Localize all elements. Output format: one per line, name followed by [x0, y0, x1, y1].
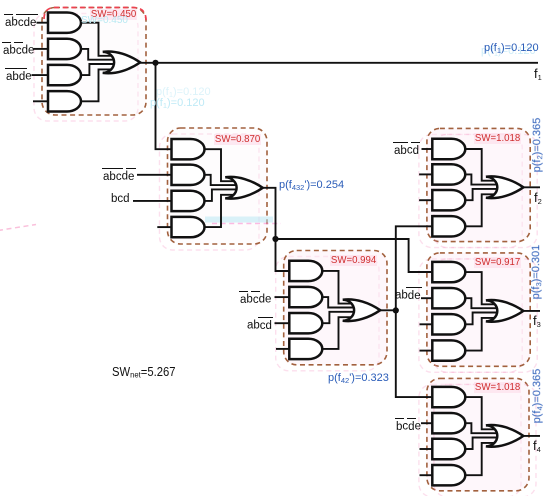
wire input stub to C4G3: [419, 199, 432, 201]
ghost artifact: cyan p(f1)=0.120 upper: [156, 87, 211, 99]
value label minterm b'cd'e (C6 G2 input): [396, 418, 421, 433]
wire C3G1 output to OR top input: [322, 271, 351, 304]
value label p(f3)=0.301 (vertical): [531, 244, 543, 299]
value label minterm bcd (C2 G3 input): [111, 193, 130, 205]
AND gate C1G3: [48, 65, 81, 85]
ghost artifact: stray pink dashes lower-left: [0, 225, 36, 231]
value label minterm a'b'cd' (C4 G1 input): [394, 142, 419, 157]
value label minterm a'bc'de (C1 G2 input): [3, 42, 34, 57]
cluster box SW=0.917 (f3 logic): [427, 253, 530, 366]
AND gate C6G4: [432, 465, 465, 485]
wire C4G2 output to OR upper-middle input: [465, 174, 497, 184]
wire C3G3 output to OR lower-middle input: [322, 312, 353, 323]
wire f2 output: [523, 186, 540, 188]
value label minterm a'b'd'e (C1 G3 input): [6, 68, 32, 83]
wire f3 output: [523, 310, 540, 312]
value label minterm abd'e' (C5 G2 input): [395, 287, 421, 302]
ghost artifact: red dashed top edge of SW=0.450 box: [44, 8, 146, 21]
AND gate C5G3: [432, 314, 465, 334]
wire C1G4 output to OR bottom input: [81, 69, 112, 101]
wire C1G2 output to OR upper-middle input: [81, 49, 114, 60]
AND gate C5G2: [432, 288, 465, 308]
wire input stub to C4G1: [422, 148, 433, 150]
wire C2G2 output to OR upper-middle input: [205, 175, 237, 185]
node f432 junction: [272, 236, 278, 242]
AND gate C1G4: [48, 91, 81, 111]
AND gate C2G3: [172, 191, 205, 211]
ghost artifact: pink halo right of f4 box: [434, 384, 536, 496]
wire C2G3 output to OR lower-middle input: [205, 189, 237, 201]
wire C2G1 output to OR top input: [205, 149, 235, 181]
ghost artifact: pink offset copy of cluster box SW=1.018 (f2 logic): [419, 134, 522, 247]
node f42 junction: [393, 307, 399, 313]
wire C5G3 output to OR lower-middle input: [465, 313, 497, 325]
wire C6G1 output to OR top input: [465, 397, 495, 429]
AND gate C6G2: [432, 413, 465, 433]
value label p(f42')=0.323: [328, 373, 389, 385]
ghost artifact: pale copy of p(f1)=0.120: [481, 46, 536, 58]
AND gate C4G2: [432, 164, 465, 184]
ghost artifact: pink offset copy of cluster box SW=0.870: [160, 134, 260, 250]
cluster box SW=0.994: [284, 251, 387, 365]
ghost artifact: pale cyan band inside SW=0.870 box: [205, 217, 273, 223]
wire C3G2 output to OR upper-middle input: [322, 297, 353, 307]
wire input stub to C1G4: [33, 100, 48, 102]
AND gate C1G1: [48, 13, 81, 33]
value label p(f432')=0.254: [279, 180, 344, 192]
ghost artifact: magenta dashed segment inside SW=0.870 box: [212, 223, 281, 225]
wire f4 output: [523, 435, 540, 437]
AND gate C4G4: [432, 216, 465, 236]
wire input stub to C1G3: [32, 74, 49, 76]
node label f1: [534, 67, 542, 81]
ghost artifact: pink halo right of f2 box: [434, 134, 537, 247]
wire C6G3 output to OR lower-middle input: [465, 438, 497, 450]
wire C5G2 output to OR upper-middle input: [465, 298, 497, 308]
value label minterm abc'd' (C3 G3 input): [247, 317, 272, 332]
node label f3: [533, 314, 541, 328]
cluster box SW=0.450 (f1 logic): [42, 8, 146, 116]
value label minterm a'b'c'de' (C2 G2 input): [103, 168, 134, 183]
OR gate C6OR: [486, 425, 524, 447]
ghost artifact: pink offset copy of cluster box SW=1.018 (f4 logic): [419, 384, 521, 496]
cluster box SW=0.870: [168, 128, 268, 244]
value label SW=0.994: [330, 255, 377, 266]
wire C4G4 output to OR bottom input: [465, 194, 495, 226]
OR gate C5OR: [486, 300, 524, 322]
AND gate C2G2: [172, 165, 205, 185]
value label SWnet=5.267: [112, 366, 176, 379]
AND gate C2G4: [172, 217, 205, 237]
value label SW=1.018 (f4): [474, 382, 521, 393]
OR gate C2OR: [225, 177, 263, 199]
ghost artifact: pink offset copy of cluster box SW=0.994: [276, 257, 379, 371]
wire input stub to C3G3: [275, 322, 290, 324]
wire input stub to C5G4: [420, 350, 433, 352]
wire C1G1 output to OR top input: [81, 23, 112, 56]
ghost artifact: pink halo right of f3 box: [434, 259, 537, 372]
node label f2: [534, 191, 542, 205]
ghost artifact: cyan p(f1)=0.120 lower: [150, 98, 205, 110]
AND gate C3G1: [289, 261, 322, 281]
wire input stub to C1G1: [37, 22, 49, 24]
wire f1 net: OR C1 output to right edge: [140, 62, 538, 64]
wire C4G1 output to OR top input: [465, 149, 495, 181]
AND gate C3G3: [289, 313, 322, 333]
ghost artifact: pink offset copy of cluster box SW=0.450 (f1 logic): [34, 14, 138, 122]
AND gate C1G2: [48, 39, 81, 59]
wire C6G4 output to OR bottom input: [465, 443, 495, 475]
wire input stub to C5G2: [421, 297, 432, 299]
value label SW=1.018 (f2): [474, 133, 521, 144]
OR gate C3OR: [343, 299, 381, 321]
wire input stub to C6G2: [421, 422, 432, 424]
wire C4G3 output to OR lower-middle input: [465, 189, 497, 200]
wire input stub to C2G2: [137, 174, 172, 176]
AND gate C3G4: [289, 339, 322, 359]
value label SW=0.870: [214, 134, 261, 145]
value label minterm a'bc'de (C3 G2 input): [240, 291, 271, 306]
wire C5G1 output to OR top input: [465, 272, 495, 304]
ghost artifact: cyan SW=0.450: [81, 16, 128, 27]
OR gate C1OR: [103, 52, 141, 74]
ghost artifact: pink offset copy of cluster box SW=0.917 (f3 logic): [419, 259, 522, 372]
value label SW=0.917 (f3): [474, 257, 521, 268]
wire input stub to C4G2: [419, 173, 432, 175]
value label p(f1)=0.120: [484, 43, 539, 55]
wire f432 junction down to C3 gate G1 input: [276, 239, 290, 271]
wire input stub to C2G3: [133, 200, 172, 202]
wire input stub to C5G3: [420, 323, 433, 325]
value label p(f2)=0.365 (vertical): [532, 117, 544, 172]
wire input stub to C3G4: [276, 348, 289, 350]
wire C6G2 output to OR upper-middle input: [465, 423, 497, 433]
wire C3G4 output to OR bottom input: [322, 317, 351, 349]
wire input stub to C6G3: [420, 448, 433, 450]
AND gate C6G3: [432, 439, 465, 459]
wire input stub to C3G2: [275, 296, 290, 298]
AND gate C3G2: [289, 287, 322, 307]
OR gate C4OR: [486, 176, 524, 198]
AND gate C2G1: [172, 139, 205, 159]
wire C3 OR output to f42 trunk: [380, 309, 396, 311]
wire C2G4 output to OR bottom input: [205, 195, 235, 227]
node f1 junction: [152, 60, 158, 66]
cluster box SW=1.018 (f4 logic): [427, 378, 529, 490]
value label minterm a'bc'd'e' (C1 G1 input): [5, 14, 36, 29]
AND gate C4G1: [432, 139, 465, 159]
AND gate C6G1: [432, 387, 465, 407]
cluster box SW=1.018 (f2 logic): [427, 128, 530, 241]
value label SW=0.450: [90, 9, 137, 20]
wire f1 junction down to C2 gate G1 input: [156, 63, 172, 149]
wire C1G3 output to OR lower-middle input: [81, 64, 114, 75]
wire C5G4 output to OR bottom input: [465, 318, 495, 351]
wire f42 trunk vertical: C4 G4 input to C6 G1 input: [396, 226, 433, 397]
wire input stub to C6G4: [420, 474, 433, 476]
AND gate C5G1: [432, 262, 465, 282]
wire input stub to C1G2: [34, 48, 49, 50]
AND gate C4G3: [432, 190, 465, 210]
node label f4: [533, 439, 541, 453]
AND gate C5G4: [432, 340, 465, 360]
wire f432 junction right then down to C5 gate G1 input (f3): [276, 239, 433, 272]
value label p(f4)=0.365 (vertical): [532, 368, 544, 423]
wire input stub to C2G4: [157, 226, 171, 228]
wire C2 OR output to junction: [262, 188, 276, 239]
